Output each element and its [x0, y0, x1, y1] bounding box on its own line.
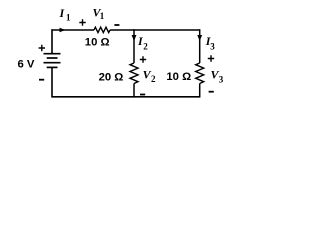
current arrow I2 — [132, 35, 137, 41]
label minus of battery — [39, 79, 44, 81]
svg-text:2: 2 — [151, 74, 156, 84]
battery E 6V long plate 1 — [44, 53, 61, 55]
resistor R2 zigzag 20 ohm middle — [130, 63, 138, 84]
wire right branch lower — [199, 84, 201, 98]
svg-text:3: 3 — [219, 75, 224, 85]
svg-text:6 V: 6 V — [18, 59, 35, 71]
svg-text:1: 1 — [66, 13, 71, 23]
svg-text:1: 1 — [100, 11, 105, 21]
label plus of battery — [39, 45, 45, 51]
label plus of V1 — [79, 19, 85, 25]
current arrow I3 — [197, 35, 202, 41]
label plus of V3 — [208, 55, 214, 61]
svg-text:2: 2 — [143, 42, 148, 52]
wire left vertical lower — [51, 67, 53, 97]
wire middle branch upper — [133, 29, 135, 63]
wire top horizontal left segment — [52, 29, 94, 31]
svg-text:20 Ω: 20 Ω — [99, 72, 124, 84]
svg-text:10 Ω: 10 Ω — [85, 37, 110, 49]
wire middle branch lower — [133, 84, 135, 98]
resistor R3 zigzag 10 ohm right — [196, 63, 204, 84]
label minus of V3 — [209, 91, 214, 93]
wire top horizontal right segment — [110, 29, 200, 31]
battery short plate 2 — [47, 66, 58, 68]
label minus of V1 — [114, 24, 119, 26]
current arrow I1 — [60, 28, 66, 33]
battery short plate 1 — [47, 57, 58, 59]
svg-text:3: 3 — [210, 42, 215, 52]
svg-text:10 Ω: 10 Ω — [166, 71, 191, 83]
wire left vertical upper — [51, 29, 53, 53]
label minus of V2 — [140, 94, 145, 96]
wire right branch upper — [199, 29, 201, 63]
wire bottom horizontal — [52, 96, 200, 98]
svg-text:I: I — [59, 6, 66, 20]
battery long plate 2 — [44, 62, 61, 64]
label plus of V2 — [140, 56, 146, 62]
resistor R1 zigzag 10 ohm top — [94, 27, 110, 32]
